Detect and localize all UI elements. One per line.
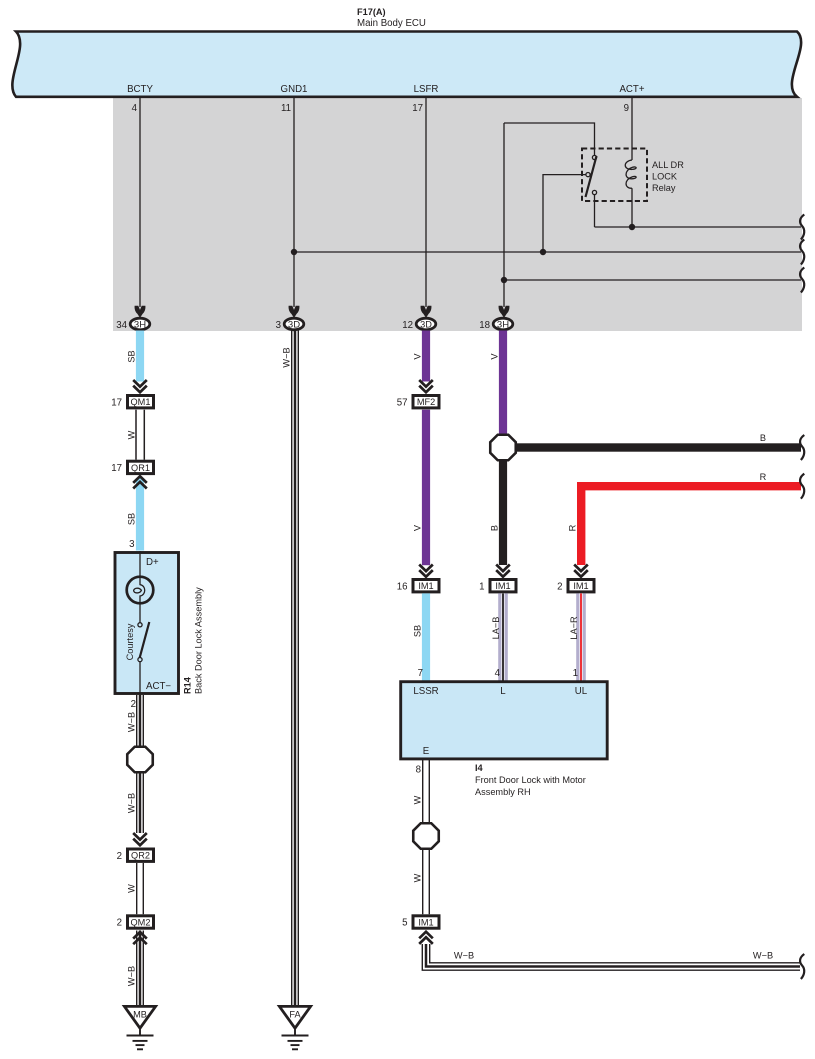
connector oval 3D pin3 xyxy=(284,318,304,330)
svg-text:D+: D+ xyxy=(146,557,159,568)
wire 3H column down to connector xyxy=(503,123,505,307)
svg-text:16: 16 xyxy=(397,582,408,593)
svg-text:UL: UL xyxy=(575,686,588,697)
svg-text:3: 3 xyxy=(129,539,134,550)
wire LSFR pin17 to connector 3D xyxy=(425,97,427,307)
svg-text:R: R xyxy=(568,524,578,531)
svg-text:I4: I4 xyxy=(475,763,484,773)
courtesy switch blade xyxy=(140,622,150,658)
svg-text:Front Door Lock with Motor: Front Door Lock with Motor xyxy=(475,775,586,785)
wire V 3H to joint octagon xyxy=(499,331,507,435)
wire SB QR1 to back door lock xyxy=(136,478,144,551)
connector oval 3H pin18 xyxy=(493,318,513,330)
wire W-B joint to QR2 xyxy=(137,773,144,834)
svg-text:QM2: QM2 xyxy=(131,918,151,928)
gray harness area of Main Body ECU xyxy=(113,98,802,331)
wire W-B back door lock to joint xyxy=(137,695,144,747)
svg-text:1: 1 xyxy=(479,582,484,593)
wire LA-B IM1 to L xyxy=(498,593,508,681)
relay switch contact top xyxy=(592,155,596,159)
ground point MB triangle xyxy=(124,1006,155,1028)
svg-text:SB: SB xyxy=(127,350,137,362)
wire W-B GND1 3D to ground FA xyxy=(292,331,299,1006)
wire ACT+ pin9 to relay coil xyxy=(631,97,633,160)
svg-text:W−B: W−B xyxy=(127,793,137,813)
svg-text:SB: SB xyxy=(127,513,137,525)
connector IM1 pin5 xyxy=(413,916,439,928)
direction chevron out of QM2 xyxy=(133,932,147,944)
svg-text:11: 11 xyxy=(281,103,291,114)
wire B joint to IM1 pin1 xyxy=(499,460,507,565)
courtesy switch contact bottom xyxy=(138,658,142,662)
svg-text:QR1: QR1 xyxy=(131,463,150,473)
svg-text:W: W xyxy=(413,873,423,882)
wire BCTY pin4 to connector 3H xyxy=(139,97,141,307)
relay switch blade xyxy=(586,156,597,197)
ground point FA triangle xyxy=(279,1006,310,1028)
svg-text:ACT−: ACT− xyxy=(146,681,171,692)
svg-text:W−B: W−B xyxy=(282,347,292,367)
svg-text:ALL DR: ALL DR xyxy=(652,160,684,170)
wire V MF2 to IM1 xyxy=(422,410,430,566)
direction chevron into QM1 xyxy=(133,380,147,392)
svg-text:2: 2 xyxy=(117,918,122,929)
connector IM1 pin16 xyxy=(413,580,439,592)
wire relay switch bottom to output bus xyxy=(594,195,596,227)
splice MF2 pin57 xyxy=(413,396,439,408)
splice joint octagon xyxy=(127,747,153,773)
wire relay coil to output bus xyxy=(631,188,633,227)
connector IM1 pin2 xyxy=(568,580,594,592)
break symbol ground bus xyxy=(800,240,804,265)
svg-text:R: R xyxy=(760,472,767,482)
internal wire switch to ACT- xyxy=(139,662,141,695)
wire R from right edge to IM1 pin2 xyxy=(581,486,801,565)
direction chevron into IM1 pin2 xyxy=(574,565,588,577)
svg-text:17: 17 xyxy=(412,103,423,114)
svg-text:3H: 3H xyxy=(497,320,509,331)
svg-text:2: 2 xyxy=(131,699,136,710)
direction chevron into MF2 xyxy=(419,380,433,392)
svg-text:V: V xyxy=(413,524,423,531)
internal wire D+ to lamp xyxy=(139,551,141,577)
break symbol wire R xyxy=(800,474,804,499)
splice QR2 pin2 xyxy=(128,849,154,861)
wire W joint to IM1 pin5 xyxy=(423,849,430,914)
svg-text:Back Door Lock Assembly: Back Door Lock Assembly xyxy=(194,587,204,694)
wire W-B IM1 to right edge xyxy=(422,944,800,970)
svg-text:LA−R: LA−R xyxy=(569,616,579,640)
svg-text:IM1: IM1 xyxy=(418,918,433,928)
svg-text:E: E xyxy=(423,746,430,757)
arrow into connector 3H xyxy=(135,306,146,318)
splice QR1 pin17 xyxy=(128,461,154,473)
back door lock assembly R14 body xyxy=(115,553,179,694)
junction relay COM on ground bus xyxy=(540,249,546,255)
svg-text:W−B: W−B xyxy=(753,951,773,961)
splice QM1 pin17 xyxy=(128,396,154,408)
svg-text:17: 17 xyxy=(111,398,122,409)
svg-text:2: 2 xyxy=(117,851,122,862)
relay ALL DR LOCK dashed enclosure xyxy=(582,149,647,202)
svg-text:57: 57 xyxy=(397,398,408,409)
svg-text:18: 18 xyxy=(479,320,490,331)
arrow into connector 3H pin18 xyxy=(499,306,510,318)
joint octagon ground return xyxy=(413,823,439,849)
direction chevron into IM1 pin16 xyxy=(419,565,433,577)
svg-text:GND1: GND1 xyxy=(281,84,308,95)
arrow into connector 3D xyxy=(289,306,300,318)
direction chevron into QR2 xyxy=(133,833,147,845)
break symbol bus y280 xyxy=(800,268,804,293)
svg-text:MB: MB xyxy=(133,1010,147,1020)
Main Body ECU connector band F17(A) xyxy=(12,32,801,97)
svg-text:W−B: W−B xyxy=(454,951,474,961)
svg-text:7: 7 xyxy=(418,668,423,679)
wire SB IM1 to LSSR xyxy=(422,593,430,681)
wire SB 3H to QM1 xyxy=(136,331,144,382)
svg-text:MF2: MF2 xyxy=(417,397,435,407)
connector oval 3H pin34 xyxy=(130,318,150,330)
svg-text:34: 34 xyxy=(116,320,127,331)
ground symbol FA xyxy=(282,1030,309,1050)
relay switch contact bottom xyxy=(592,190,596,194)
connector IM1 pin1 xyxy=(490,580,516,592)
svg-text:QR2: QR2 xyxy=(131,851,150,861)
svg-text:IM1: IM1 xyxy=(573,581,588,591)
svg-text:W: W xyxy=(127,884,137,893)
svg-text:3D: 3D xyxy=(420,320,432,330)
svg-text:LSSR: LSSR xyxy=(413,686,438,697)
break symbol wire W-B xyxy=(800,954,804,979)
svg-text:BCTY: BCTY xyxy=(127,84,153,95)
bus wire y280 to right edge xyxy=(504,279,801,281)
svg-text:3D: 3D xyxy=(288,320,300,331)
ground symbol MB xyxy=(127,1030,154,1050)
svg-text:B: B xyxy=(760,433,766,443)
front door lock with motor assembly RH body xyxy=(401,682,608,759)
relay output bus to right edge xyxy=(595,226,802,228)
svg-text:LA−B: LA−B xyxy=(491,617,501,640)
svg-text:Assembly RH: Assembly RH xyxy=(475,787,531,797)
svg-text:V: V xyxy=(490,353,500,360)
joint octagon door lock feed xyxy=(490,435,516,461)
connector oval 3D pin12 xyxy=(416,318,436,330)
svg-text:W−B: W−B xyxy=(127,712,137,732)
internal wire lamp to switch xyxy=(139,603,141,622)
svg-text:ACT+: ACT+ xyxy=(619,84,644,95)
svg-text:L: L xyxy=(500,686,506,697)
wire B joint to right edge xyxy=(516,443,801,451)
svg-text:3: 3 xyxy=(276,320,281,331)
svg-text:5: 5 xyxy=(402,918,407,929)
wire W E to joint octagon xyxy=(423,760,430,823)
svg-text:B: B xyxy=(490,525,500,531)
svg-text:V: V xyxy=(413,353,423,360)
svg-text:QM1: QM1 xyxy=(131,397,151,407)
svg-text:Main Body ECU: Main Body ECU xyxy=(357,18,426,29)
svg-text:3H: 3H xyxy=(134,320,146,331)
svg-text:4: 4 xyxy=(132,103,138,114)
direction chevron into IM1 pin1 xyxy=(496,565,510,577)
wire LA-R IM1 to UL xyxy=(576,593,586,681)
relay switch contact middle xyxy=(586,173,590,177)
junction on 3H column xyxy=(501,277,507,283)
svg-text:R14: R14 xyxy=(183,676,193,694)
svg-text:LOCK: LOCK xyxy=(652,172,678,182)
svg-text:IM1: IM1 xyxy=(418,581,433,591)
junction on GND1 wire xyxy=(291,249,297,255)
svg-text:LSFR: LSFR xyxy=(414,84,439,95)
svg-text:SB: SB xyxy=(413,625,423,637)
svg-text:Relay: Relay xyxy=(652,183,676,193)
break symbol wire B xyxy=(800,435,804,460)
wire relay switch top to 3H column xyxy=(504,123,595,155)
svg-text:W: W xyxy=(127,430,137,439)
svg-text:IM1: IM1 xyxy=(495,581,510,591)
wire GND1 pin11 to connector 3D xyxy=(293,97,295,307)
svg-text:1: 1 xyxy=(573,668,578,679)
svg-text:8: 8 xyxy=(416,765,421,776)
direction chevron out of QR1 xyxy=(133,476,147,488)
wire V 3D to MF2 xyxy=(422,331,430,382)
svg-text:9: 9 xyxy=(624,103,629,114)
wire W-B QM2 to ground MB xyxy=(137,931,144,1006)
direction chevron out of IM1 pin5 xyxy=(419,932,433,944)
svg-text:W: W xyxy=(413,795,423,804)
arrow into connector 3D pin12 xyxy=(421,306,432,318)
svg-text:W−B: W−B xyxy=(127,966,137,986)
svg-text:17: 17 xyxy=(111,463,122,474)
svg-text:FA: FA xyxy=(289,1010,301,1020)
lamp filament xyxy=(134,577,145,603)
relay coil L1 xyxy=(625,160,636,188)
ground bus wire to right edge xyxy=(294,251,801,253)
courtesy lamp bulb xyxy=(127,577,154,604)
svg-text:Courtesy: Courtesy xyxy=(125,623,135,660)
splice QM2 pin2 xyxy=(128,916,154,928)
svg-text:F17(A): F17(A) xyxy=(357,7,386,17)
svg-text:4: 4 xyxy=(495,668,501,679)
break symbol relay output bus xyxy=(800,215,804,240)
junction coil output xyxy=(629,224,635,230)
wire relay COM to ground bus xyxy=(543,175,586,252)
wire W QR2 to QM2 xyxy=(137,863,144,914)
courtesy switch contact top xyxy=(138,623,142,627)
wire W QM1 to QR1 xyxy=(136,410,144,460)
svg-text:12: 12 xyxy=(402,320,413,331)
svg-text:2: 2 xyxy=(557,582,562,593)
